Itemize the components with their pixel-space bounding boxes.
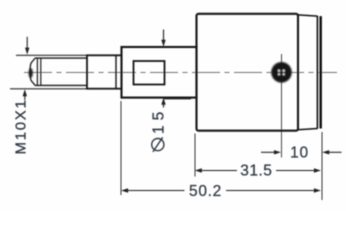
svg-text:50.2: 50.2 (189, 183, 222, 200)
svg-text:31.5: 31.5 (240, 162, 272, 179)
svg-text:10: 10 (290, 145, 309, 162)
svg-text:M10X1: M10X1 (13, 98, 30, 154)
svg-text:15: 15 (151, 107, 168, 134)
